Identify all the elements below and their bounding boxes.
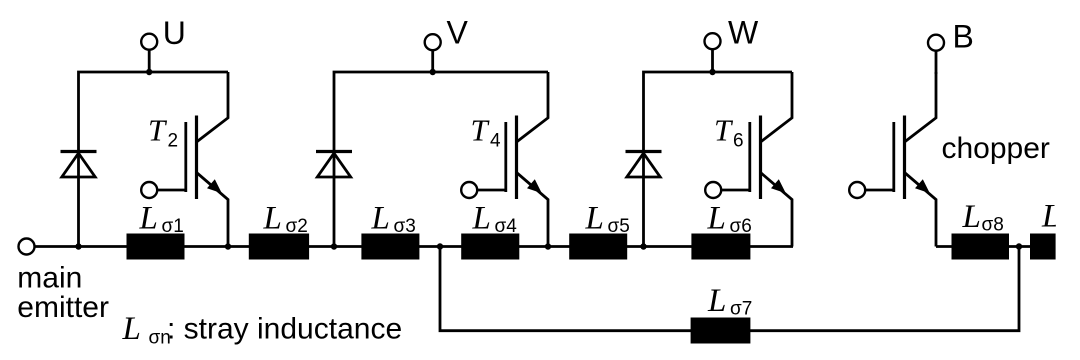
svg-text:6: 6 bbox=[733, 131, 744, 152]
svg-text:emitter: emitter bbox=[17, 291, 109, 324]
svg-text:U: U bbox=[163, 15, 186, 51]
svg-text:σ5: σ5 bbox=[608, 216, 630, 237]
svg-text:chopper: chopper bbox=[942, 132, 1050, 165]
svg-text:σ1: σ1 bbox=[162, 216, 184, 237]
svg-text:σ4: σ4 bbox=[495, 216, 518, 237]
svg-text:L: L bbox=[263, 200, 282, 236]
svg-text:2: 2 bbox=[168, 131, 179, 152]
svg-text:σ7: σ7 bbox=[730, 298, 752, 319]
svg-text:T: T bbox=[148, 113, 168, 148]
svg-text:: stray inductance: : stray inductance bbox=[167, 313, 402, 346]
svg-text:V: V bbox=[447, 15, 469, 51]
svg-text:W: W bbox=[728, 15, 759, 51]
svg-text:4: 4 bbox=[490, 131, 501, 152]
svg-text:main: main bbox=[17, 262, 82, 295]
svg-text:σ3: σ3 bbox=[394, 216, 416, 237]
svg-text:L: L bbox=[962, 199, 981, 235]
svg-text:L: L bbox=[371, 200, 390, 236]
svg-text:σ6: σ6 bbox=[730, 216, 752, 237]
svg-text:σ2: σ2 bbox=[286, 216, 308, 237]
svg-text:L: L bbox=[472, 200, 491, 236]
svg-text:B: B bbox=[953, 19, 974, 55]
svg-text:T: T bbox=[471, 113, 491, 148]
svg-text:L: L bbox=[585, 200, 604, 236]
svg-text:L: L bbox=[707, 200, 726, 236]
svg-text:T: T bbox=[714, 113, 734, 148]
svg-text:σ8: σ8 bbox=[982, 215, 1004, 236]
svg-text:L: L bbox=[139, 200, 158, 236]
svg-text:L: L bbox=[707, 283, 726, 319]
svg-text:L: L bbox=[122, 311, 141, 347]
